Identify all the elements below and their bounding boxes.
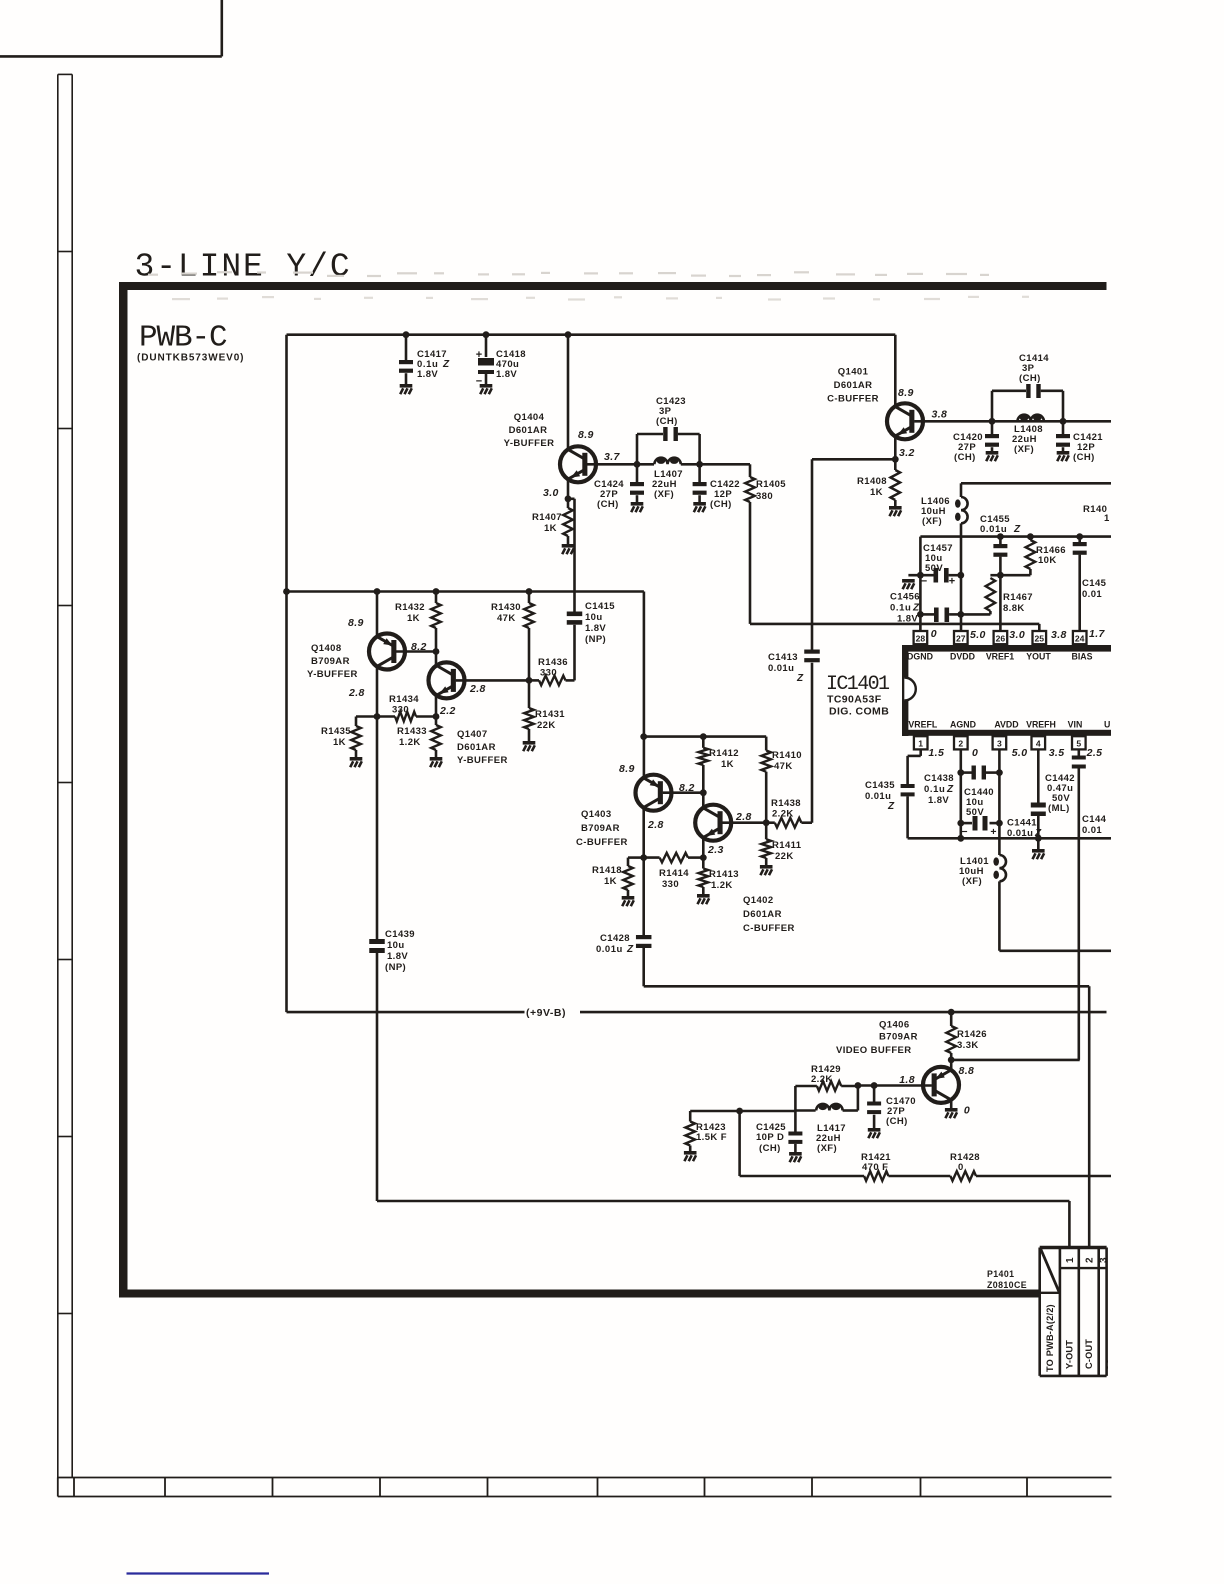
svg-text:R1413: R1413: [709, 869, 739, 880]
svg-text:(CH): (CH): [597, 499, 619, 510]
svg-text:D601AR: D601AR: [509, 425, 548, 436]
svg-text:3.7: 3.7: [604, 451, 621, 463]
svg-text:R1435: R1435: [321, 726, 351, 737]
svg-text:1K: 1K: [604, 876, 617, 887]
svg-text:0: 0: [958, 1162, 964, 1173]
svg-text:R1428: R1428: [950, 1152, 980, 1163]
svg-text:R1414: R1414: [659, 868, 689, 879]
svg-text:(NP): (NP): [385, 962, 406, 973]
svg-text:1.5K F: 1.5K F: [696, 1132, 727, 1143]
svg-text:Z: Z: [887, 801, 895, 812]
svg-text:1.7: 1.7: [1089, 628, 1106, 640]
svg-text:3.2: 3.2: [899, 447, 915, 459]
svg-text:1K: 1K: [407, 613, 420, 624]
svg-text:330: 330: [540, 668, 557, 679]
svg-text:R1436: R1436: [538, 657, 568, 668]
svg-text:3.8: 3.8: [932, 409, 948, 421]
svg-text:C1438: C1438: [924, 773, 954, 784]
svg-text:DIG. COMB: DIG. COMB: [829, 706, 889, 718]
svg-text:1.8V: 1.8V: [585, 623, 606, 634]
svg-text:26: 26: [996, 633, 1006, 643]
svg-text:(CH): (CH): [1073, 452, 1095, 463]
svg-text:(CH): (CH): [656, 416, 678, 427]
svg-text:(XF): (XF): [1014, 444, 1034, 455]
svg-text:1: 1: [918, 739, 923, 749]
svg-text:R1405: R1405: [756, 479, 786, 490]
svg-text:PWB-C: PWB-C: [139, 321, 227, 356]
svg-text:BIAS: BIAS: [1071, 652, 1092, 662]
svg-text:50V: 50V: [966, 807, 984, 818]
svg-text:AVDD: AVDD: [994, 720, 1018, 730]
svg-text:R1438: R1438: [771, 798, 801, 809]
svg-text:Z: Z: [1013, 524, 1021, 535]
svg-text:0: 0: [972, 747, 978, 759]
svg-text:TO PWB-A(2/2): TO PWB-A(2/2): [1045, 1304, 1055, 1372]
svg-text:1.2K: 1.2K: [711, 880, 733, 891]
svg-text:VREFL: VREFL: [908, 720, 937, 730]
svg-text:0.01u: 0.01u: [596, 944, 623, 955]
svg-text:1.2K: 1.2K: [399, 737, 421, 748]
svg-text:1.8V: 1.8V: [496, 369, 517, 380]
svg-text:2.8: 2.8: [469, 683, 486, 695]
svg-text:DVDD: DVDD: [950, 652, 975, 662]
svg-text:C145: C145: [1082, 578, 1107, 589]
svg-text:5: 5: [1076, 739, 1081, 749]
svg-text:R1432: R1432: [395, 602, 425, 613]
svg-text:10u: 10u: [585, 612, 603, 623]
svg-text:5.0: 5.0: [1012, 747, 1028, 759]
svg-text:22K: 22K: [775, 851, 794, 862]
svg-text:0: 0: [964, 1105, 970, 1117]
svg-text:C144: C144: [1082, 814, 1107, 825]
svg-text:(CH): (CH): [954, 452, 976, 463]
svg-text:22K: 22K: [537, 720, 556, 731]
svg-text:1.8V: 1.8V: [417, 369, 438, 380]
svg-text:−: −: [921, 576, 927, 588]
svg-text:C1413: C1413: [768, 652, 798, 663]
svg-text:Y-BUFFER: Y-BUFFER: [457, 755, 508, 766]
svg-text:Q1403: Q1403: [581, 809, 612, 820]
svg-text:8.8: 8.8: [959, 1065, 975, 1077]
svg-text:Z0810CE: Z0810CE: [987, 1280, 1027, 1290]
svg-text:8.9: 8.9: [898, 387, 914, 399]
svg-text:0: 0: [931, 628, 937, 640]
svg-text:0.01: 0.01: [1082, 825, 1102, 836]
svg-text:B709AR: B709AR: [581, 823, 620, 834]
svg-text:C1439: C1439: [385, 929, 415, 940]
svg-text:0.01: 0.01: [1082, 589, 1102, 600]
svg-text:3.0: 3.0: [543, 487, 559, 499]
svg-text:C-BUFFER: C-BUFFER: [576, 837, 628, 848]
svg-text:Z: Z: [796, 673, 804, 684]
svg-text:Q1404: Q1404: [514, 412, 545, 423]
svg-text:Y-BUFFER: Y-BUFFER: [307, 669, 358, 680]
svg-text:8.8K: 8.8K: [1003, 603, 1025, 614]
svg-text:Z: Z: [912, 603, 920, 614]
svg-text:C1441: C1441: [1007, 818, 1037, 829]
svg-text:D601AR: D601AR: [834, 380, 873, 391]
svg-text:25: 25: [1035, 633, 1045, 643]
svg-text:8.9: 8.9: [619, 763, 635, 775]
svg-text:2.3: 2.3: [707, 844, 724, 856]
svg-text:50V: 50V: [925, 563, 943, 574]
svg-text:(NP): (NP): [585, 634, 606, 645]
svg-text:TC90A53F: TC90A53F: [827, 694, 882, 706]
svg-text:Y-BUFFER: Y-BUFFER: [504, 438, 555, 449]
svg-text:3-LINE Y/C: 3-LINE Y/C: [135, 249, 352, 286]
svg-text:1K: 1K: [721, 759, 734, 770]
svg-text:U: U: [1104, 720, 1110, 730]
svg-text:8.9: 8.9: [348, 617, 364, 629]
svg-text:R1467: R1467: [1003, 592, 1033, 603]
svg-text:C1456: C1456: [890, 592, 920, 603]
svg-text:3.8: 3.8: [1051, 629, 1067, 641]
svg-text:10K: 10K: [1038, 555, 1057, 566]
svg-text:−: −: [476, 376, 482, 388]
svg-text:(CH): (CH): [886, 1116, 908, 1127]
svg-text:10u: 10u: [387, 940, 405, 951]
svg-text:2.8: 2.8: [647, 819, 664, 831]
svg-text:24: 24: [1075, 633, 1085, 643]
svg-text:D601AR: D601AR: [743, 909, 782, 920]
svg-text:8.2: 8.2: [679, 782, 695, 794]
svg-text:R1407: R1407: [532, 512, 562, 523]
svg-text:(XF): (XF): [962, 876, 982, 887]
svg-text:Z: Z: [442, 359, 450, 370]
svg-text:(CH): (CH): [710, 499, 732, 510]
svg-text:VIDEO BUFFER: VIDEO BUFFER: [836, 1045, 912, 1056]
svg-text:28: 28: [916, 633, 926, 643]
svg-text:3.0: 3.0: [1009, 629, 1025, 641]
svg-text:VREFH: VREFH: [1026, 720, 1056, 730]
svg-text:C1428: C1428: [600, 933, 630, 944]
svg-text:2.2K: 2.2K: [811, 1074, 833, 1085]
svg-text:Q1406: Q1406: [879, 1020, 910, 1031]
svg-text:4: 4: [1036, 739, 1041, 749]
svg-text:Q1407: Q1407: [457, 729, 488, 740]
svg-text:1.8V: 1.8V: [928, 795, 949, 806]
svg-text:47K: 47K: [497, 613, 516, 624]
svg-text:2.5: 2.5: [1086, 747, 1103, 759]
svg-text:+: +: [990, 826, 996, 838]
svg-text:3.5: 3.5: [1049, 747, 1065, 759]
svg-text:Z: Z: [626, 944, 634, 955]
svg-text:1.8V: 1.8V: [387, 951, 408, 962]
svg-text:(+9V-B): (+9V-B): [526, 1007, 566, 1019]
svg-text:8.9: 8.9: [578, 429, 594, 441]
svg-text:- -: - -: [1102, 1360, 1112, 1369]
svg-text:Q1401: Q1401: [838, 367, 869, 378]
svg-text:VIN: VIN: [1068, 720, 1083, 730]
svg-text:+: +: [476, 349, 482, 361]
svg-text:Z: Z: [946, 784, 954, 795]
svg-text:3: 3: [1099, 1257, 1110, 1263]
svg-text:C-OUT: C-OUT: [1084, 1339, 1094, 1369]
svg-text:1.5: 1.5: [928, 747, 944, 759]
svg-text:2.8: 2.8: [348, 687, 365, 699]
svg-text:3: 3: [997, 739, 1002, 749]
svg-text:R1431: R1431: [535, 709, 565, 720]
svg-text:+: +: [949, 576, 955, 588]
svg-text:2: 2: [958, 739, 963, 749]
svg-text:R1433: R1433: [397, 726, 427, 737]
svg-text:380: 380: [756, 491, 773, 502]
svg-text:5.0: 5.0: [970, 629, 986, 641]
svg-text:C-BUFFER: C-BUFFER: [827, 394, 879, 405]
svg-text:R1426: R1426: [957, 1029, 987, 1040]
svg-text:(CH): (CH): [1019, 373, 1041, 384]
svg-text:R1430: R1430: [491, 602, 521, 613]
svg-text:AGND: AGND: [950, 720, 976, 730]
svg-text:C-BUFFER: C-BUFFER: [743, 923, 795, 934]
svg-text:C1415: C1415: [585, 601, 615, 612]
svg-text:2.8: 2.8: [735, 811, 752, 823]
svg-text:R1418: R1418: [592, 865, 622, 876]
svg-text:C1435: C1435: [865, 780, 895, 791]
svg-text:330: 330: [662, 879, 679, 890]
svg-text:B709AR: B709AR: [879, 1032, 918, 1043]
svg-text:(ML): (ML): [1048, 803, 1070, 814]
svg-text:27: 27: [956, 633, 966, 643]
svg-text:2: 2: [1085, 1257, 1096, 1263]
svg-text:0.01u: 0.01u: [768, 663, 794, 674]
svg-text:8.2: 8.2: [411, 641, 427, 653]
svg-text:(CH): (CH): [759, 1143, 781, 1154]
svg-text:R1408: R1408: [857, 476, 887, 487]
svg-text:(DUNTKB573WEV0): (DUNTKB573WEV0): [137, 353, 244, 364]
svg-text:(XF): (XF): [817, 1143, 837, 1154]
svg-text:1: 1: [1065, 1257, 1076, 1263]
svg-text:R1434: R1434: [389, 694, 419, 705]
svg-text:470 F: 470 F: [862, 1162, 888, 1173]
svg-text:3.3K: 3.3K: [957, 1040, 979, 1051]
svg-text:(XF): (XF): [922, 516, 942, 527]
svg-text:0.1u: 0.1u: [890, 603, 911, 614]
svg-text:1K: 1K: [333, 737, 346, 748]
svg-text:1: 1: [1104, 513, 1110, 524]
svg-text:DGND: DGND: [907, 652, 933, 662]
svg-text:10P D: 10P D: [756, 1132, 784, 1143]
svg-text:1K: 1K: [870, 487, 883, 498]
svg-text:0.01u: 0.01u: [980, 524, 1007, 535]
svg-text:1K: 1K: [544, 523, 557, 534]
svg-text:D601AR: D601AR: [457, 742, 496, 753]
svg-text:P1401: P1401: [987, 1269, 1014, 1279]
svg-text:R1410: R1410: [772, 750, 802, 761]
svg-text:0.1u: 0.1u: [924, 784, 945, 795]
svg-text:2.2: 2.2: [439, 705, 456, 717]
svg-text:Y-OUT: Y-OUT: [1065, 1340, 1075, 1369]
svg-text:YOUT: YOUT: [1026, 652, 1051, 662]
svg-text:2.2K: 2.2K: [772, 809, 794, 820]
svg-text:VREF1: VREF1: [986, 652, 1014, 662]
svg-text:Q1408: Q1408: [311, 643, 342, 654]
svg-text:330: 330: [392, 705, 409, 716]
svg-text:R1411: R1411: [772, 840, 802, 851]
svg-text:47K: 47K: [774, 761, 793, 772]
svg-text:B709AR: B709AR: [311, 656, 350, 667]
svg-text:Q1402: Q1402: [743, 895, 774, 906]
svg-text:(XF): (XF): [654, 489, 674, 500]
svg-text:R1412: R1412: [709, 748, 739, 759]
